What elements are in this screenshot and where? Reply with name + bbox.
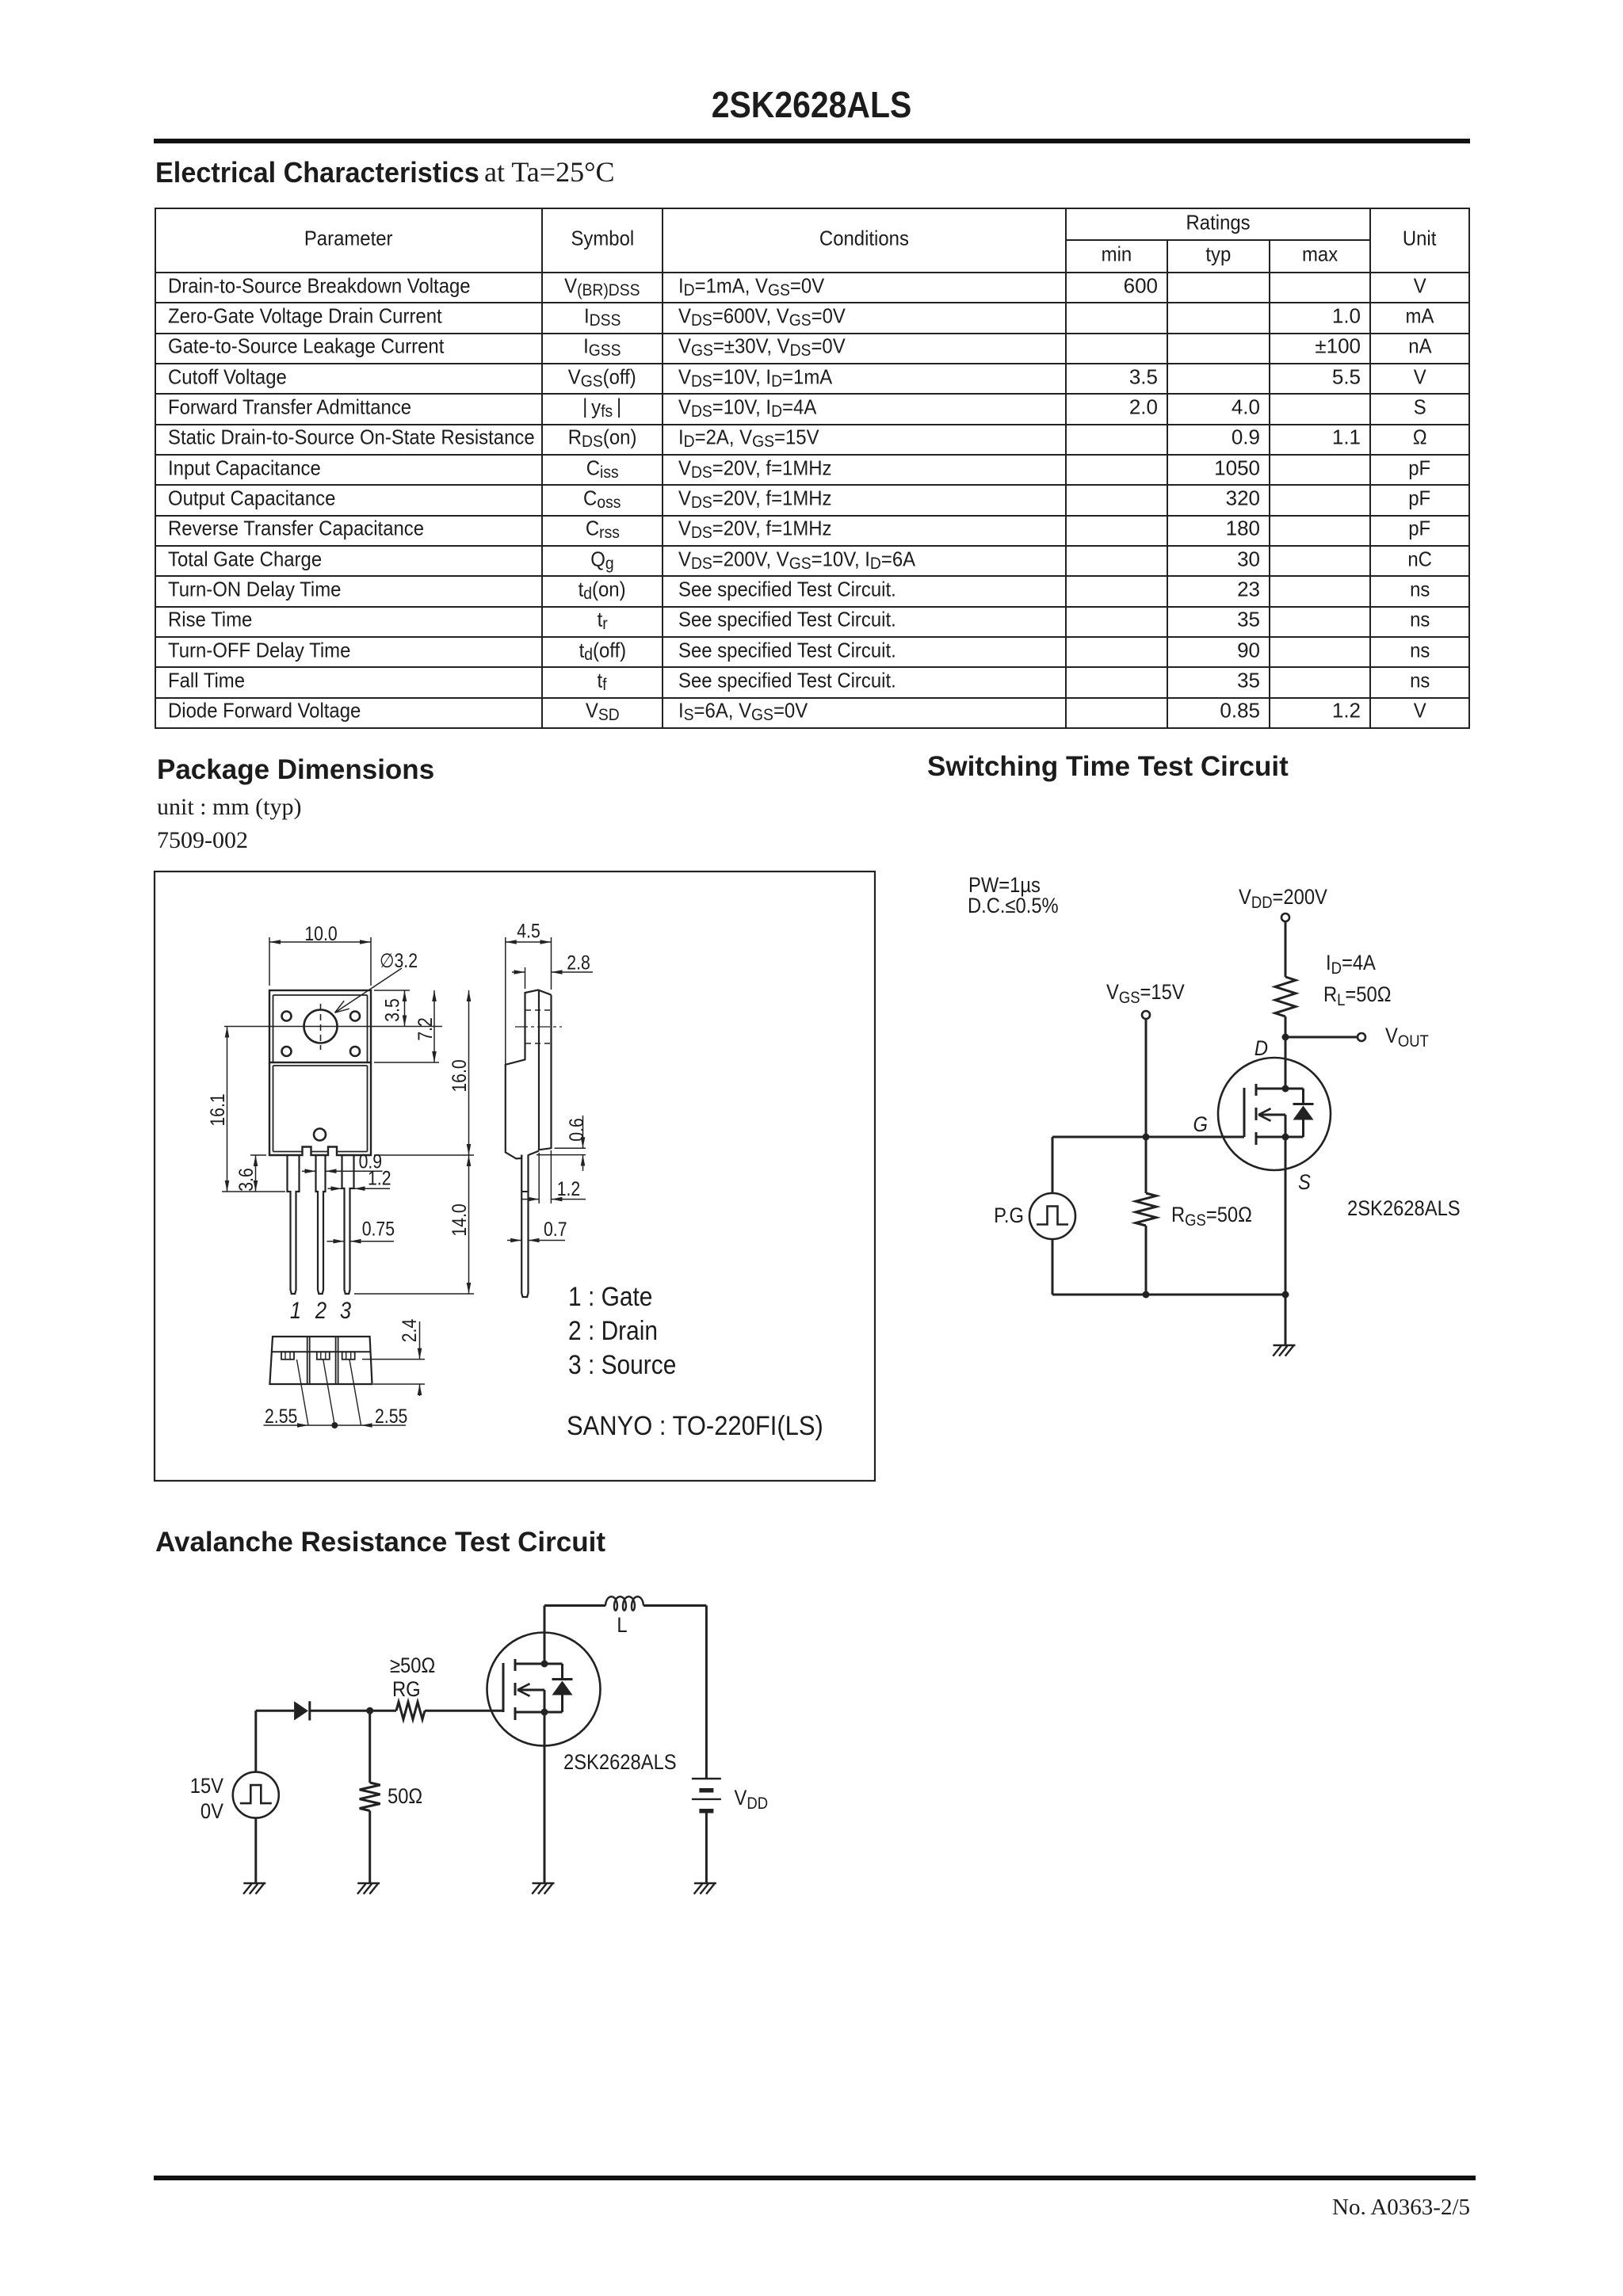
- body diode: [1285, 1088, 1304, 1090]
- heading: Switching Time Test Circuit: [927, 753, 1289, 780]
- hole centre line: [224, 1026, 442, 1028]
- wire RL to drain: [1285, 1016, 1287, 1089]
- bottom view slots: [307, 1337, 308, 1384]
- heading: Package Dimensions: [157, 756, 434, 784]
- dim 0.7 (lead): [507, 1240, 521, 1241]
- front view: body outline: [269, 1062, 371, 1155]
- MOSFET body circle: [1218, 1058, 1331, 1170]
- electrical characteristics table: [155, 208, 1470, 729]
- bottom wire: [1052, 1294, 1285, 1296]
- wire battery to ground: [705, 1812, 708, 1883]
- dim 3.5: [374, 990, 410, 991]
- gate bar: [502, 1663, 505, 1712]
- ground (source): [533, 1882, 555, 1885]
- dim 1.2 (back plate): [538, 1153, 540, 1203]
- side view: molded body profile: [506, 990, 552, 1159]
- side view: heatsink back plate: [539, 990, 552, 1150]
- diode D1: [294, 1701, 308, 1720]
- svg-text:RG: RG: [392, 1678, 421, 1702]
- body connection with arrow: [517, 1689, 544, 1691]
- document title: [90, 86, 1534, 123]
- svg-text:0V: 0V: [200, 1800, 223, 1824]
- source contact: [515, 1711, 544, 1714]
- svg-text:L: L: [617, 1614, 627, 1638]
- drain contact: [515, 1663, 544, 1665]
- dim 7.2: [374, 1062, 439, 1063]
- pulse generator 15V/0V: [254, 1711, 257, 1772]
- ground: [1274, 1344, 1296, 1347]
- heading: Electrical Characteristics: [155, 158, 479, 187]
- dim 14.0: [354, 1293, 474, 1295]
- tab corner holes: [282, 1012, 292, 1021]
- footer rule: [154, 2176, 1476, 2180]
- ground (battery): [694, 1882, 716, 1885]
- dim 16.0: [374, 1154, 474, 1156]
- dim 2.8: [525, 967, 526, 989]
- dim 16.1: [222, 1191, 285, 1192]
- dim 0.9 (lead 2 width): [302, 1170, 316, 1172]
- lead 1 (gate): [288, 1155, 300, 1294]
- ground (pulse): [243, 1882, 265, 1885]
- gate wire: [425, 1710, 503, 1712]
- body hole: [314, 1129, 326, 1141]
- dim 2.55 / 2.55: [264, 1425, 407, 1426]
- package drawing frame: [155, 871, 875, 1481]
- ground (50ohm): [357, 1882, 380, 1885]
- svg-text:≥50Ω: ≥50Ω: [390, 1654, 435, 1678]
- junction node: [366, 1707, 373, 1714]
- lead 3 (source): [342, 1155, 354, 1294]
- channel segments: [1255, 1084, 1258, 1096]
- resistor 50ohm: [369, 1711, 371, 1783]
- wire junction to diode: [310, 1710, 370, 1712]
- drain contact: [1256, 1088, 1285, 1090]
- body diode: [544, 1663, 563, 1665]
- wire RG to junction: [370, 1710, 396, 1712]
- dim 0.6: [555, 1147, 586, 1149]
- channel segments: [514, 1659, 517, 1671]
- gate bar: [1243, 1088, 1246, 1137]
- resistor RL: [1275, 977, 1296, 1016]
- wire VGS to gate: [1145, 1020, 1148, 1137]
- gate wire: [1052, 1136, 1244, 1138]
- wire rail to drain: [544, 1606, 546, 1665]
- svg-text:50Ω: 50Ω: [388, 1785, 422, 1809]
- battery VDD: [692, 1778, 721, 1779]
- wire pulse to diode: [256, 1710, 294, 1712]
- dim 0.75 (lead 3 tip width): [327, 1241, 345, 1242]
- dim 1.2 (lead 3 root width): [328, 1188, 342, 1189]
- heading: Avalanche Resistance Test Circuit: [155, 1528, 605, 1556]
- resistor RG: [396, 1702, 425, 1719]
- source wire to ground: [544, 1712, 546, 1883]
- inductor L: [605, 1596, 643, 1610]
- lead cross sections: [281, 1352, 294, 1360]
- source wire to ground: [1285, 1137, 1287, 1345]
- leader lines to pitch dim: [297, 1360, 309, 1425]
- side view: hidden hole lines: [525, 1009, 551, 1011]
- source contact: [1256, 1136, 1285, 1138]
- node D junction: [1282, 1034, 1289, 1041]
- side view: lead: [521, 1155, 528, 1298]
- wire rail to battery: [643, 1604, 706, 1607]
- wire pulse to ground: [254, 1818, 257, 1884]
- dim 4.5: [505, 937, 506, 1068]
- footer document number: [0, 2196, 1470, 2219]
- pulse generator P.G: [1052, 1137, 1054, 1193]
- svg-text:VDD: VDD: [735, 1787, 769, 1814]
- wire to VOUT: [1285, 1036, 1357, 1039]
- dim 3.6: [250, 1154, 266, 1156]
- body connection with arrow: [1258, 1114, 1285, 1116]
- bottom view outline: [269, 1337, 372, 1384]
- svg-text:15V: 15V: [190, 1775, 223, 1798]
- mounting hole ∅3.2: [304, 1010, 338, 1043]
- top rail wire: [544, 1604, 605, 1607]
- resistor RGS: [1145, 1137, 1148, 1193]
- svg-text:2SK2628ALS: 2SK2628ALS: [563, 1751, 677, 1775]
- dim 2.4: [362, 1359, 425, 1360]
- header rule: [154, 139, 1470, 143]
- dim ∅3.2 leader: [335, 968, 403, 1013]
- wire VDD to RL: [1285, 922, 1287, 977]
- MOSFET body circle: [487, 1633, 601, 1746]
- dim 10.0 (tab width): [269, 937, 270, 986]
- front view: mounting tab outline: [269, 990, 371, 1062]
- lead 2 (drain): [316, 1155, 326, 1294]
